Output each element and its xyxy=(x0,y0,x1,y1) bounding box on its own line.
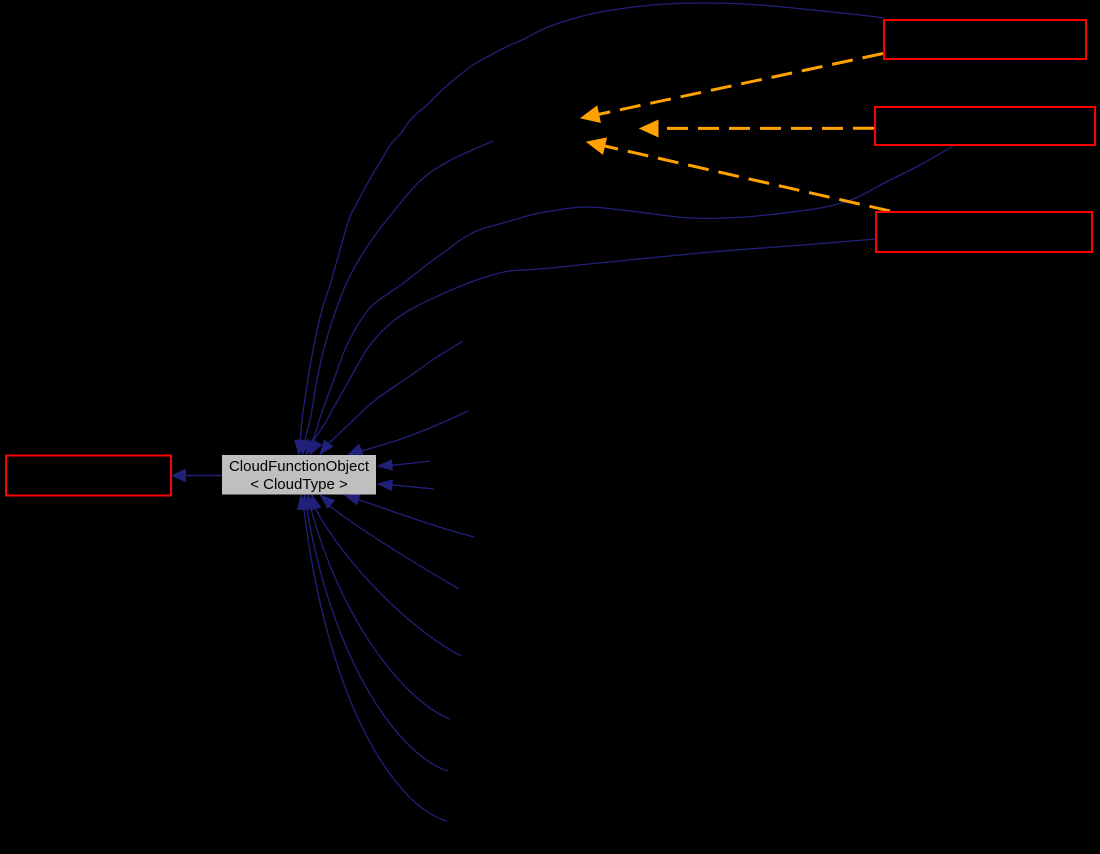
arrowhead xyxy=(320,440,333,454)
edge: bottom fan 5 xyxy=(307,510,448,771)
arrowhead xyxy=(378,460,392,470)
arrowhead xyxy=(345,495,360,505)
edge: middle-right red box -> CloudFunctionObject (wavy) xyxy=(312,146,953,444)
red box: truncated derived class (top right) xyxy=(884,20,1086,59)
arrowhead xyxy=(295,440,305,454)
arrowhead xyxy=(321,495,335,508)
edge: bottom fan 3 xyxy=(315,508,461,656)
arrowhead xyxy=(378,480,392,490)
template relation dashed edge from bottom red box xyxy=(603,146,890,211)
template relation dashed edge from top red box xyxy=(597,54,883,115)
edge: derived class (top-right red box) -> CloudFunctionObject xyxy=(300,3,884,444)
edge: bottom-right red box -> CloudFunctionObject xyxy=(309,239,876,446)
edge: bottom fan 1 xyxy=(352,498,474,538)
edge: hidden derived class -> CloudFunctionObject xyxy=(304,141,493,444)
center node: CloudFunctionObject< CloudType > xyxy=(222,455,376,495)
template relation dashed edge from middle red box xyxy=(657,127,874,130)
edge: bottom fan 6 xyxy=(304,510,447,821)
arrowhead xyxy=(305,495,315,510)
arrowhead xyxy=(311,495,321,510)
red box: truncated derived class (bottom right) xyxy=(876,212,1092,252)
arrowhead xyxy=(348,444,363,454)
edge: hidden class -> right edge of node (lower) xyxy=(392,485,434,489)
arrowhead xyxy=(301,495,311,510)
orange arrowhead xyxy=(587,138,606,154)
arrowhead xyxy=(298,495,308,510)
orange arrowhead xyxy=(581,106,600,122)
red box: truncated base class (left) xyxy=(6,456,171,496)
edge: bottom fan 4 xyxy=(311,509,450,719)
svg-text:CloudFunctionObject: CloudFunctionObject xyxy=(229,458,370,475)
edge: hidden class -> CloudFunctionObject (short upper diagonal) xyxy=(326,341,463,446)
svg-text:< CloudType >: < CloudType > xyxy=(250,476,348,493)
edge: bottom fan 2 xyxy=(327,504,459,589)
arrowhead xyxy=(172,469,186,481)
orange arrowhead xyxy=(640,120,658,136)
arrowhead xyxy=(306,440,317,455)
edge: hidden class -> CloudFunctionObject (flat diagonal) xyxy=(358,411,468,452)
edge: CloudFunctionObject -> base class (left red box) xyxy=(186,475,222,477)
arrowhead xyxy=(299,440,309,455)
edge: hidden class -> right edge of node xyxy=(392,461,430,465)
red box: truncated derived class (middle right) xyxy=(875,107,1095,145)
arrowhead xyxy=(310,440,322,455)
